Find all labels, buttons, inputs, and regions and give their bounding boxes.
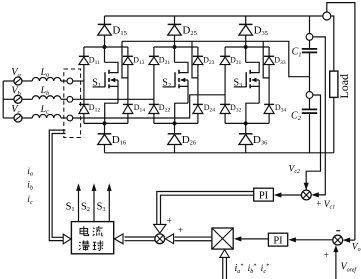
wire source lead S3 [251, 86, 259, 103]
wire D26 to bottom bus [174, 145, 176, 153]
wire top bus to D25 [174, 16, 176, 24]
wire source jog S1 [105, 103, 118, 123]
wire drain lead upper S1 [104, 47, 106, 62]
arrow Vc2 into summer [304, 183, 309, 191]
wire source jog S2 [175, 103, 188, 123]
wire leg1 bottom rail [84, 122, 128, 124]
gate bar S2 [174, 72, 176, 87]
svg-text:+: + [167, 215, 172, 225]
block text line1 电流 [80, 226, 89, 235]
wire terminal to C2 [309, 98, 311, 109]
wire leg2 top rail [154, 46, 198, 48]
wire source to inductor Lc [22, 117, 32, 119]
wire leg2 right col lower [197, 114, 199, 124]
arrow gate S2 [92, 183, 97, 191]
diode D35 [239, 23, 253, 25]
double wire reference currents [222, 257, 224, 279]
minus sign summer3 [336, 230, 340, 232]
arrow into hysteresis block left [63, 234, 71, 244]
wire load bottom to bus [333, 97, 335, 152]
arrow into hysteresis block right [114, 234, 123, 244]
inductor Lc [32, 114, 61, 118]
arrow Voref into summer3 [333, 245, 338, 252]
diode D12 [79, 103, 89, 105]
wire leg1 left col mid [83, 65, 85, 105]
node leg2 top junction [173, 45, 177, 49]
diode D22 [149, 103, 159, 105]
wire D25 to top node [174, 35, 176, 47]
wire bottom node to D16 [104, 123, 106, 133]
wire PI2 to multiplier [242, 238, 269, 240]
gate bar S3 [245, 72, 247, 87]
wire inductor to sensor c [61, 117, 68, 119]
svg-text:Load: Load [337, 74, 351, 99]
wire C1 to terminal Vc2 [309, 52, 311, 91]
inductor La [32, 77, 61, 81]
wire C2 to bottom bus [309, 113, 311, 153]
arrow gate S1 [76, 183, 81, 191]
wire leg2 bottom rail [154, 122, 198, 124]
wire leg1 left col upper [83, 47, 85, 56]
wire D16 to bottom bus [104, 145, 106, 153]
diode D24 [193, 103, 203, 105]
wire Vo sense from + terminal [327, 3, 355, 241]
wire inductor to sensor b [61, 98, 68, 100]
wire midpoint bus drop leg3 [263, 41, 269, 78]
wire leg3 right col upper [268, 47, 270, 56]
node leg1 top junction [103, 45, 107, 49]
wire drain lead upper S2 [174, 47, 176, 62]
svg-text:PI: PI [259, 191, 269, 202]
arrow into PI2 [288, 237, 296, 242]
svg-text:+: + [178, 225, 183, 235]
multiplier [212, 228, 233, 249]
AC source Vb [14, 95, 22, 103]
arrow gate S3 [107, 183, 112, 191]
wire drain lead S2 [175, 62, 189, 72]
diode D23 [193, 55, 203, 57]
svg-text:PI: PI [273, 236, 283, 247]
current sensor terminal c [67, 115, 73, 121]
wire bottom negative bus [105, 152, 334, 154]
gate signal line S1 [78, 190, 80, 222]
wire leg2 right col mid [197, 65, 199, 105]
current sensor terminal a [67, 78, 73, 84]
gate lead S3 [234, 86, 247, 88]
wire drain lead S1 [105, 62, 119, 72]
arrow multiplier out into summer 2 [165, 234, 173, 244]
summer 3 (output voltage) [333, 235, 343, 245]
wire phase a to leg1 [72, 80, 84, 82]
dashed measurement box [64, 69, 81, 138]
wire drain lead upper S3 [245, 47, 247, 62]
gate lead S2 [163, 86, 176, 88]
arrow into multiplier [234, 236, 242, 241]
arrow Vo into summer3 [343, 238, 351, 243]
gate lead S1 [93, 86, 106, 88]
diode D21 [149, 55, 159, 57]
arrow Vc1 into summer [311, 192, 319, 197]
wire inductor to sensor a [61, 80, 68, 82]
node leg2 bottom junction [173, 121, 177, 125]
body arrow S1 [110, 78, 115, 83]
double wire multiplier to summer2 [175, 236, 212, 238]
wire leg2 left col lower [153, 114, 155, 124]
capacitor C2 [302, 108, 317, 110]
wire source lead S2 [180, 86, 188, 103]
wire phase c to leg3 [72, 95, 225, 118]
wire source to inductor La [22, 80, 32, 82]
diode D16 [98, 133, 112, 135]
gate signal line S2 [93, 190, 95, 222]
wire leg1 right col mid [127, 65, 129, 105]
diode D14 [123, 103, 133, 105]
diode D34 [264, 103, 274, 105]
arrow into multiplier bottom [220, 250, 229, 258]
wire leg3 left col mid [224, 65, 226, 105]
wire leg3 right col mid [268, 65, 270, 105]
wire D15 to top node [104, 35, 106, 47]
double wire summer2 out [125, 236, 155, 238]
wire PI1 out (outer) [157, 192, 254, 225]
wire midpoint bus [122, 41, 310, 76]
diode D31 [220, 55, 230, 57]
wire to load top [331, 16, 334, 71]
wire neutral to source Va [3, 80, 14, 82]
wire summer to PI1 [281, 194, 302, 196]
gate bar S1 [104, 72, 106, 87]
load resistor box [330, 71, 338, 97]
diode D36 [239, 133, 253, 135]
node leg1 bottom junction [103, 121, 107, 125]
wire leg2 left col upper [153, 47, 155, 56]
wire leg1 left col lower [83, 114, 85, 124]
diode D25 [168, 23, 182, 25]
wire leg3 top rail [225, 46, 269, 48]
body arrow wire S2 [181, 79, 188, 81]
wire midpoint bus drop leg2 [192, 41, 198, 78]
diode D33 [264, 55, 274, 57]
capacitor C1 [302, 48, 317, 50]
diode D26 [168, 133, 182, 135]
wire Vc1 sense [313, 37, 325, 195]
arrow into PI1 [274, 192, 282, 197]
svg-text:+: + [324, 250, 329, 260]
wire leg3 left col lower [224, 114, 226, 124]
wire top bus to D35 [245, 16, 247, 24]
node leg3 bottom junction [244, 121, 248, 125]
wire summer3 to PI2 [296, 239, 333, 241]
current sensor terminal b [67, 96, 73, 102]
summer 2 (current reference) [155, 234, 165, 244]
wire source lead S1 [110, 86, 118, 103]
terminal circle Vc2 tap [306, 92, 313, 99]
wire terminal to C1 [309, 40, 311, 49]
terminal circle output + [323, 12, 331, 20]
diode D11 [79, 55, 89, 57]
diode D32 [220, 103, 230, 105]
wire leg2 left col mid [153, 65, 155, 105]
AC source Vc [14, 114, 22, 122]
wire source to inductor Lb [22, 98, 32, 100]
wire leg2 right col upper [197, 47, 199, 56]
svg-text:+: + [316, 199, 321, 209]
inductor Lb [32, 96, 61, 100]
body arrow S2 [180, 78, 185, 83]
wire midpoint bus drop leg1 [122, 41, 128, 78]
wire bottom node to D26 [174, 123, 176, 133]
body arrow S3 [251, 78, 256, 83]
wire top bus to terminal Vc1 [309, 16, 311, 34]
wire D35 to top node [245, 35, 247, 47]
wire drain lead S3 [246, 62, 260, 72]
wire leg3 right col lower [268, 114, 270, 124]
node leg3 top junction [244, 45, 248, 49]
wire current feedback (outer) [49, 130, 65, 241]
wire PI1 out (inner) [161, 195, 254, 224]
wire top positive bus [105, 15, 323, 17]
terminal circle Vc1 tap [306, 34, 313, 41]
body arrow wire S3 [253, 79, 260, 81]
arrow PI1 out into summer 2 [154, 224, 166, 233]
PI controller (voltage balance) [254, 188, 274, 201]
wire Vo into summer3 [345, 239, 355, 241]
block text line2 滞球 [79, 240, 89, 250]
wire phase b to leg2 [72, 98, 154, 100]
summer (capacitor balance) [301, 190, 311, 200]
wire leg3 bottom rail [225, 122, 269, 124]
left neutral bus wire [2, 81, 4, 118]
wire Voref [335, 252, 337, 279]
wire current feedback (inner) [52, 134, 65, 238]
wire leg3 left col upper [224, 47, 226, 56]
hysteresis controller block [71, 222, 113, 254]
body arrow wire S1 [111, 79, 118, 81]
gate signal line S3 [108, 190, 110, 222]
wire top bus to D15 [104, 16, 106, 24]
wire leg1 right col lower [127, 114, 129, 124]
wire bottom node to D36 [245, 123, 247, 133]
wire leg1 top rail [84, 46, 128, 48]
diode D15 [98, 23, 112, 25]
wire neutral to source Vb [3, 98, 14, 100]
wire Vc2 sense [306, 95, 320, 191]
wire leg1 right col upper [127, 47, 129, 56]
wire neutral to source Vc [3, 117, 14, 119]
wire D36 to bottom bus [245, 145, 247, 153]
wire source jog S3 [246, 103, 259, 123]
diode D13 [123, 55, 133, 57]
AC source Va [14, 77, 22, 85]
